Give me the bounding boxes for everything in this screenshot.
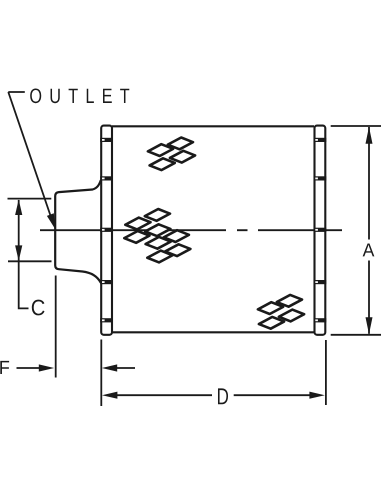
OUTLET leader arrowhead xyxy=(47,213,55,229)
dimension F extension line (flange edge) xyxy=(17,276,136,378)
dimension A line xyxy=(368,127,370,240)
dimension F left arrow tail xyxy=(17,367,43,369)
diamond logo cluster bottom right xyxy=(258,295,304,329)
dimension C line xyxy=(18,200,20,261)
dimension C leader to label xyxy=(19,261,29,308)
dimension A extension lines xyxy=(331,126,381,335)
right band clamp notches xyxy=(314,138,327,323)
diamond logo cluster top xyxy=(148,138,195,171)
filter body bottom line xyxy=(112,331,314,333)
label D xyxy=(218,388,228,404)
dimension F arrowheads xyxy=(39,364,54,371)
dimension C arrowheads xyxy=(15,200,22,216)
label F xyxy=(0,361,9,374)
dimension D extension lines xyxy=(101,340,326,407)
diamond logo cluster middle xyxy=(124,209,190,262)
OUTLET leader line xyxy=(8,92,52,222)
filter body top line xyxy=(112,125,314,127)
label A xyxy=(363,243,375,256)
left band clamp notches xyxy=(100,138,113,323)
dimension F right arrow tail xyxy=(115,367,135,369)
OUTLET label xyxy=(30,88,129,103)
centerline xyxy=(40,229,342,231)
dimension C extension ticks xyxy=(8,199,52,309)
outlet flange outline xyxy=(55,180,101,283)
left clamp band xyxy=(101,126,112,335)
dimension A arrowheads xyxy=(366,127,373,144)
right clamp band xyxy=(315,126,326,335)
label C xyxy=(32,300,45,316)
dimension D arrowheads xyxy=(102,392,117,399)
dimension D line segments xyxy=(114,394,212,396)
